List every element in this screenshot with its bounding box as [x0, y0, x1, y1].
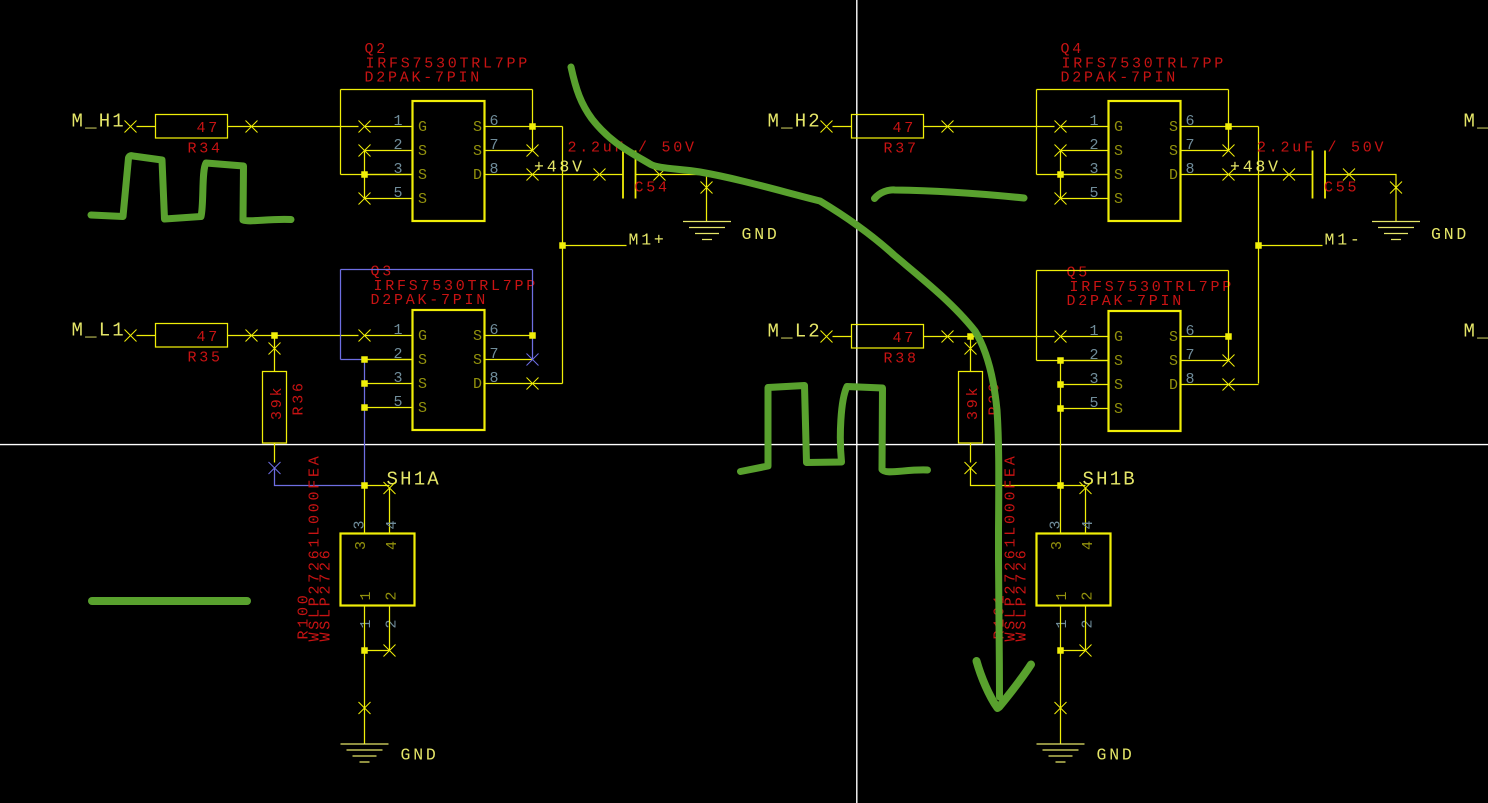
- pin 1 endpoint Q2: [359, 121, 371, 133]
- wire pin7 stub: [1181, 150, 1229, 152]
- wire pin5 stub: [365, 407, 413, 409]
- svg-text:4: 4: [1080, 541, 1097, 550]
- window crosshair vertical divider: [856, 0, 858, 803]
- svg-text:1: 1: [1090, 113, 1099, 130]
- svg-text:S: S: [418, 143, 427, 160]
- svg-text:39k: 39k: [269, 385, 286, 420]
- svg-text:3: 3: [352, 520, 369, 529]
- node pin6 junction Q5: [1225, 333, 1232, 340]
- svg-text:S: S: [1114, 401, 1123, 418]
- node pin2 junction of Q5: [1057, 357, 1064, 364]
- svg-text:S: S: [418, 376, 427, 393]
- wire pin6 stub: [485, 126, 533, 128]
- node pin3 junction of Q4: [1057, 171, 1064, 178]
- wire pin3 feed: [1037, 174, 1109, 176]
- wire label to resistor: [833, 126, 852, 128]
- wire pin3 feed: [341, 174, 413, 176]
- transistor Q3 body: [413, 310, 485, 430]
- pin endpoint above R39: [965, 343, 977, 355]
- node shunt bottom junction: [361, 647, 368, 654]
- wire R36 bottom stub: [274, 443, 276, 463]
- pin 2 endpoint: [359, 145, 371, 157]
- svg-text:4: 4: [384, 520, 401, 529]
- svg-text:M_: M_: [1464, 321, 1488, 343]
- resistor R39 body: [959, 372, 983, 444]
- wire resistor to gate: [228, 126, 359, 128]
- svg-text:S: S: [418, 400, 427, 417]
- svg-text:47: 47: [197, 329, 221, 346]
- pin 7 endpoint: [527, 145, 539, 157]
- wire +48V rail: [533, 174, 624, 176]
- svg-text:2: 2: [384, 619, 401, 628]
- wire pin8 drain stub: [1181, 174, 1229, 176]
- wire pin2 stub: [365, 359, 413, 361]
- wire endpoint after C55: [1343, 169, 1355, 181]
- wire pin8 drain stub: [485, 174, 533, 176]
- svg-text:WSLP2726: WSLP2726: [318, 547, 335, 641]
- svg-text:M1-: M1-: [1325, 231, 1363, 250]
- pin 8 endpoint: [1223, 379, 1235, 391]
- wire source loop of Q3: [340, 270, 342, 360]
- wire endpoint after resistor: [942, 121, 954, 133]
- svg-text:S: S: [1114, 191, 1123, 208]
- wire endpoint after resistor: [246, 121, 258, 133]
- wire endpoint above ground: [1390, 182, 1402, 194]
- wire shunt bottom tie: [365, 650, 390, 652]
- wire pin3 stub: [365, 383, 413, 385]
- svg-text:M_L1: M_L1: [72, 320, 126, 342]
- annotation square wave left: [91, 156, 291, 221]
- label pin endpoint SH1B: [1080, 482, 1092, 494]
- label pin endpoint +48V: [1283, 169, 1295, 181]
- node pin6 junction Q3: [529, 332, 536, 339]
- svg-text:GND: GND: [742, 225, 780, 244]
- wire endpoint after resistor: [246, 330, 258, 342]
- wire pin3 stub: [365, 174, 413, 176]
- wire shunt pin3: [364, 486, 366, 534]
- node R39 top junction: [967, 333, 974, 340]
- svg-text:1: 1: [1090, 323, 1099, 340]
- transistor Q2 body: [413, 101, 485, 221]
- svg-text:2: 2: [1090, 347, 1099, 364]
- svg-text:8: 8: [1186, 161, 1195, 178]
- svg-text:S: S: [1169, 329, 1178, 346]
- svg-text:7: 7: [1186, 347, 1195, 364]
- wire endpoint after resistor: [942, 331, 954, 343]
- svg-text:2: 2: [1080, 619, 1097, 628]
- svg-text:G: G: [1114, 329, 1123, 346]
- svg-text:R38: R38: [884, 351, 919, 368]
- wire shunt pin4: [1085, 488, 1087, 534]
- svg-text:S: S: [1114, 167, 1123, 184]
- resistor R36 body: [263, 372, 287, 444]
- node pin3 junction of Q3: [361, 380, 368, 387]
- svg-text:SH1B: SH1B: [1083, 469, 1137, 491]
- svg-text:3: 3: [1090, 161, 1099, 178]
- wire to R36: [274, 336, 276, 355]
- wire shunt pin4: [389, 488, 391, 534]
- pin 1 endpoint Q5: [1055, 331, 1067, 343]
- svg-text:3: 3: [394, 370, 403, 387]
- capacitor C54 plates: [623, 151, 636, 199]
- svg-text:S: S: [1114, 353, 1123, 370]
- pin 1 endpoint Q4: [1055, 121, 1067, 133]
- svg-text:GND: GND: [1097, 746, 1135, 765]
- svg-text:S: S: [1114, 143, 1123, 160]
- annotation arrowhead left wing: [977, 661, 998, 708]
- svg-text:6: 6: [1186, 323, 1195, 340]
- node shunt top junction: [1057, 482, 1064, 489]
- wire junction to label pin: [1061, 485, 1086, 487]
- wire drain Q3 to M1+ column: [533, 383, 563, 385]
- wire inner source tie vertical: [1060, 151, 1062, 199]
- svg-text:5: 5: [1090, 185, 1099, 202]
- wire source loop of Q2: [340, 90, 342, 175]
- ground: [341, 744, 389, 762]
- svg-text:S: S: [473, 119, 482, 136]
- pin 2 bottom endpoint: [1080, 645, 1092, 657]
- pin 8 endpoint: [527, 378, 539, 390]
- label pin endpoint M_H1: [125, 121, 137, 133]
- svg-text:M1+: M1+: [629, 231, 667, 250]
- svg-text:1: 1: [358, 619, 375, 628]
- wire R39 top stub: [970, 355, 972, 372]
- label pin endpoint M_H2: [821, 121, 833, 133]
- ground: [683, 222, 731, 240]
- wire gate stub pin1 Q2: [365, 126, 413, 128]
- node pin2 junction of Q3: [361, 356, 368, 363]
- wire shunt pin3: [1060, 486, 1062, 534]
- ground: [1372, 222, 1420, 240]
- wire gate stub pin1 Q3: [365, 335, 413, 337]
- wire pin6 stub: [485, 335, 533, 337]
- svg-text:1: 1: [1054, 619, 1071, 628]
- node pin6 junction Q2: [529, 123, 536, 130]
- svg-text:3: 3: [353, 541, 370, 550]
- svg-text:1: 1: [394, 322, 403, 339]
- pin 2 endpoint: [1055, 145, 1067, 157]
- wire pin8 drain stub: [1181, 384, 1229, 386]
- svg-text:M_H2: M_H2: [768, 111, 822, 133]
- svg-text:8: 8: [490, 161, 499, 178]
- svg-text:2: 2: [394, 137, 403, 154]
- wire shunt to ground: [1060, 651, 1062, 745]
- svg-text:5: 5: [394, 394, 403, 411]
- svg-text:47: 47: [197, 120, 221, 137]
- svg-text:6: 6: [490, 113, 499, 130]
- label pin endpoint +48V: [594, 169, 606, 181]
- svg-text:R35: R35: [188, 350, 223, 367]
- ground: [1037, 744, 1085, 762]
- svg-text:D2PAK-7PIN: D2PAK-7PIN: [371, 292, 489, 309]
- annotation long curved arrow stroke: [571, 67, 1000, 697]
- wire pin5 stub: [1061, 198, 1109, 200]
- svg-text:M_H1: M_H1: [72, 111, 126, 133]
- svg-text:1: 1: [1054, 591, 1071, 600]
- svg-text:6: 6: [1186, 113, 1195, 130]
- svg-text:D: D: [1169, 167, 1178, 184]
- svg-text:S: S: [473, 143, 482, 160]
- svg-text:S: S: [1169, 353, 1178, 370]
- svg-text:3: 3: [1049, 541, 1066, 550]
- node pin5 junction of Q3: [361, 404, 368, 411]
- wire label to resistor: [833, 336, 852, 338]
- label pin endpoint M_L2: [821, 331, 833, 343]
- svg-text:S: S: [418, 191, 427, 208]
- wire shunt pin1: [364, 606, 366, 651]
- wire gate stub pin1 Q5: [1061, 336, 1109, 338]
- annotation square wave middle: [741, 386, 928, 472]
- annotation arrowhead right wing: [999, 665, 1031, 708]
- wire pin6 to M1+ column: [533, 126, 563, 128]
- node M1+ junction: [559, 242, 566, 249]
- svg-text:S: S: [1114, 377, 1123, 394]
- wire R36 to shunt junction: [275, 468, 365, 486]
- svg-text:47: 47: [893, 330, 917, 347]
- pin 7 endpoint: [1223, 355, 1235, 367]
- wire pin5 stub: [365, 198, 413, 200]
- svg-text:2: 2: [384, 591, 401, 600]
- wire shunt pin1: [1060, 606, 1062, 651]
- wire pin3 stub: [1061, 384, 1109, 386]
- wire pin7 stub: [1181, 360, 1229, 362]
- wire pin5 stub: [1061, 408, 1109, 410]
- wire M1- vertical: [1258, 127, 1260, 384]
- wire resistor to gate: [924, 336, 1055, 338]
- svg-text:SH1A: SH1A: [387, 469, 441, 491]
- svg-text:M_L2: M_L2: [768, 321, 822, 343]
- svg-text:R37: R37: [884, 141, 919, 158]
- node R36 top junction: [271, 332, 278, 339]
- svg-text:6: 6: [490, 322, 499, 339]
- svg-text:8: 8: [1186, 371, 1195, 388]
- wire to R39: [970, 337, 972, 355]
- svg-text:39k: 39k: [965, 385, 982, 420]
- wire pin2 feed: [341, 359, 365, 361]
- wire pin6 stub: [1181, 126, 1229, 128]
- svg-text:C55: C55: [1324, 180, 1359, 197]
- svg-text:3: 3: [394, 161, 403, 178]
- pin endpoint below R36: [269, 462, 281, 474]
- node shunt bottom junction: [1057, 647, 1064, 654]
- svg-text:D: D: [473, 376, 482, 393]
- pin endpoint drain Q2: [527, 169, 539, 181]
- label pin endpoint M_L1: [125, 330, 137, 342]
- wire source loop of Q5: [1036, 271, 1038, 361]
- annotation horizontal line bottom left: [92, 597, 247, 605]
- wire shunt pin2: [1085, 606, 1087, 651]
- svg-text:S: S: [418, 352, 427, 369]
- svg-text:47: 47: [893, 120, 917, 137]
- svg-text:7: 7: [1186, 137, 1195, 154]
- svg-text:7: 7: [490, 346, 499, 363]
- wire junction to label pin: [365, 485, 390, 487]
- svg-text:7: 7: [490, 137, 499, 154]
- wire endpoint above ground: [1055, 702, 1067, 714]
- resistor R37 body: [852, 115, 924, 139]
- wire pin6 stub: [1181, 336, 1229, 338]
- wire pin7 stub: [485, 359, 533, 361]
- node shunt top junction: [361, 482, 368, 489]
- wire C55 to ground corner: [1325, 175, 1396, 222]
- svg-text:D2PAK-7PIN: D2PAK-7PIN: [1061, 70, 1179, 87]
- pin endpoint above R36: [269, 343, 281, 355]
- node pin3 junction of Q5: [1057, 381, 1064, 388]
- svg-text:+48V: +48V: [534, 158, 585, 177]
- resistor R34 body: [156, 115, 228, 139]
- transistor Q5 body: [1109, 311, 1181, 431]
- svg-text:S: S: [1169, 143, 1178, 160]
- wire pin2 feed: [1037, 360, 1061, 362]
- resistor R100 body: [341, 534, 415, 606]
- pin endpoint below R39: [965, 462, 977, 474]
- svg-text:D: D: [473, 167, 482, 184]
- wire R39 to shunt junction: [971, 468, 1061, 486]
- svg-text:2: 2: [1080, 591, 1097, 600]
- wire source tie vertical down to shunt: [1060, 361, 1062, 487]
- wire inner source tie vertical: [364, 151, 366, 199]
- svg-text:5: 5: [1090, 395, 1099, 412]
- svg-text:R34: R34: [188, 141, 223, 158]
- pin 5 endpoint: [359, 193, 371, 205]
- svg-text:G: G: [418, 119, 427, 136]
- svg-text:5: 5: [394, 185, 403, 202]
- svg-text:4: 4: [384, 541, 401, 550]
- svg-text:3: 3: [1090, 371, 1099, 388]
- wire gate stub pin1 Q4: [1061, 126, 1109, 128]
- svg-text:+48V: +48V: [1230, 158, 1281, 177]
- svg-text:M_: M_: [1464, 111, 1488, 133]
- node pin5 junction of Q5: [1057, 405, 1064, 412]
- annotation short stroke near Q4: [875, 190, 1025, 199]
- wire M1+ vertical: [562, 127, 564, 384]
- wire endpoint above ground: [701, 182, 713, 194]
- svg-text:C54: C54: [635, 180, 670, 197]
- wire +48V rail right: [1229, 174, 1313, 176]
- svg-text:8: 8: [490, 370, 499, 387]
- resistor R101 body: [1037, 534, 1111, 606]
- wire source loop of Q4: [1036, 90, 1038, 175]
- svg-text:WSLP2726: WSLP2726: [1014, 547, 1031, 641]
- wire resistor to gate: [924, 126, 1055, 128]
- svg-text:D2PAK-7PIN: D2PAK-7PIN: [365, 70, 483, 87]
- wire endpoint after C54: [654, 169, 666, 181]
- resistor R38 body: [852, 325, 924, 349]
- wire pin7 stub: [485, 150, 533, 152]
- svg-text:S: S: [418, 167, 427, 184]
- svg-text:D2PAK-7PIN: D2PAK-7PIN: [1067, 293, 1185, 310]
- wire C54 to ground corner: [636, 175, 707, 222]
- svg-text:1: 1: [394, 113, 403, 130]
- svg-text:D: D: [1169, 377, 1178, 394]
- svg-text:GND: GND: [401, 746, 439, 765]
- label pin endpoint SH1A: [384, 482, 396, 494]
- wire M1- stub: [1259, 245, 1323, 247]
- wire pin2 stub: [1061, 360, 1109, 362]
- wire resistor to gate: [228, 335, 359, 337]
- svg-text:G: G: [418, 328, 427, 345]
- wire drain Q5 to M1- column: [1229, 384, 1259, 386]
- wire endpoint above ground: [359, 702, 371, 714]
- svg-text:S: S: [1169, 119, 1178, 136]
- svg-text:R36: R36: [291, 380, 308, 415]
- svg-text:S: S: [473, 328, 482, 345]
- wire label to resistor: [137, 335, 156, 337]
- svg-text:GND: GND: [1431, 225, 1469, 244]
- svg-text:S: S: [473, 352, 482, 369]
- pin 5 endpoint: [1055, 193, 1067, 205]
- wire R39 bottom stub: [970, 443, 972, 463]
- wire pin2 stub: [365, 150, 413, 152]
- pin 7 endpoint: [1223, 145, 1235, 157]
- svg-text:G: G: [1114, 119, 1123, 136]
- svg-text:2: 2: [1090, 137, 1099, 154]
- capacitor C55 plates: [1313, 151, 1326, 199]
- wire shunt to ground: [364, 651, 366, 745]
- wire pin6 to M1- column: [1229, 126, 1259, 128]
- pin 7 endpoint: [527, 354, 539, 366]
- wire source tie vertical down to shunt: [364, 360, 366, 486]
- pin endpoint drain Q4: [1223, 169, 1235, 181]
- pin 1 endpoint Q3: [359, 330, 371, 342]
- wire R36 top stub: [274, 355, 276, 372]
- svg-text:1: 1: [358, 591, 375, 600]
- wire pin8 drain stub: [485, 383, 533, 385]
- svg-text:4: 4: [1080, 520, 1097, 529]
- wire pin2 stub: [1061, 150, 1109, 152]
- wire shunt bottom tie: [1061, 650, 1086, 652]
- node pin3 junction of Q2: [361, 171, 368, 178]
- svg-text:2.2uF / 50V: 2.2uF / 50V: [1257, 140, 1386, 157]
- window crosshair horizontal divider: [0, 444, 1488, 446]
- svg-text:2: 2: [394, 346, 403, 363]
- node pin6 junction Q4: [1225, 123, 1232, 130]
- wire M1+ stub: [563, 245, 627, 247]
- resistor R35 body: [156, 324, 228, 348]
- wire label to resistor: [137, 126, 156, 128]
- wire pin3 stub: [1061, 174, 1109, 176]
- node M1- junction: [1255, 242, 1262, 249]
- pin 2 bottom endpoint: [384, 645, 396, 657]
- svg-text:3: 3: [1048, 520, 1065, 529]
- wire shunt pin2: [389, 606, 391, 651]
- transistor Q4 body: [1109, 101, 1181, 221]
